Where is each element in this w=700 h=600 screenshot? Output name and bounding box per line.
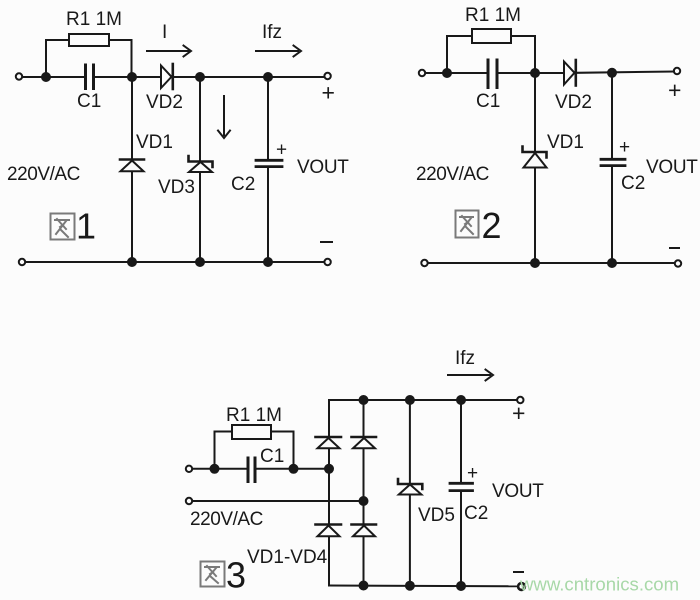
- resistor R1 (fig1): [69, 34, 109, 46]
- wire: fig3 VD5 lower lead: [409, 495, 411, 586]
- svg-text:220V/AC: 220V/AC: [416, 164, 489, 185]
- node: fig1 junction VD3 bottom: [196, 258, 204, 266]
- svg-text:VD2: VD2: [146, 92, 183, 113]
- wire: fig2 C2 lower lead: [611, 167, 613, 264]
- node: fig3 junction R1-right: [290, 465, 298, 473]
- node: fig3 junction C2 top: [457, 396, 465, 404]
- svg-text:www.cntronics.com: www.cntronics.com: [519, 574, 679, 595]
- node: fig1 junction C2 bottom: [264, 258, 272, 266]
- label: fig1 caption number 1: [76, 206, 96, 247]
- svg-text:VD1: VD1: [136, 132, 173, 153]
- node: fig2 junction VD1 bottom: [531, 259, 539, 267]
- wire: fig3 C1 to bridge left midpoint: [257, 468, 330, 470]
- wire: fig2 R1 branch right riser: [511, 36, 535, 73]
- zener diode VD5 (fig3): [398, 479, 422, 495]
- wire: fig3 R1 branch left riser: [215, 432, 233, 469]
- svg-text:+: +: [276, 140, 287, 161]
- label: fig3 220V/AC: [190, 509, 263, 530]
- arrow: fig3 Ifz direction: [448, 370, 493, 381]
- label: fig1 plus sign at output: [322, 80, 335, 106]
- node: fig3 junction VD5 bottom: [406, 582, 414, 590]
- svg-text:C1: C1: [476, 91, 500, 112]
- label: fig1 C2 polarity +: [276, 140, 287, 161]
- terminal: fig3 AC input 1: [186, 466, 192, 472]
- node: fig2 junction R1-left / input: [443, 69, 451, 77]
- label: fig2 C2 polarity +: [619, 137, 630, 158]
- label: fig2 VOUT: [646, 157, 698, 178]
- svg-text:R1 1M: R1 1M: [66, 9, 122, 30]
- svg-text:C2: C2: [231, 174, 255, 195]
- wire: fig1 VD3 lower lead: [199, 172, 201, 262]
- wire: fig1 bottom rail: [25, 261, 324, 263]
- wire: fig2 bottom rail: [428, 262, 675, 264]
- label: fig3 C1: [260, 446, 284, 467]
- label: fig3 VD5: [418, 505, 455, 526]
- diode VD1 upper-left of bridge (fig3): [316, 437, 342, 448]
- label: fig2 plus sign at output: [668, 77, 681, 103]
- capacitor C2 electrolytic (fig3): [450, 483, 473, 490]
- wire: fig2 VD1 upper lead: [534, 73, 536, 152]
- label: fig1 minus sign at output: [321, 241, 332, 243]
- label: fig1 caption glyph 图: [51, 214, 75, 240]
- svg-text:220V/AC: 220V/AC: [7, 164, 80, 185]
- node: fig2 junction C2 bottom: [608, 259, 616, 267]
- wire: fig1 top rail left segment (input to C1): [22, 76, 84, 78]
- node: fig3 junction C1 to bridge left midpoint: [325, 465, 333, 473]
- label: fig2 R1 value: [465, 5, 521, 26]
- wire: fig2 VD1 lower lead: [534, 168, 536, 263]
- svg-text:VOUT: VOUT: [297, 157, 349, 178]
- svg-text:Ifz: Ifz: [455, 348, 475, 369]
- arrow: fig1 current down through VD3: [218, 96, 230, 138]
- wire: fig3 top rail (+ bus): [329, 399, 517, 401]
- svg-text:VOUT: VOUT: [646, 157, 698, 178]
- svg-text:VD5: VD5: [418, 505, 455, 526]
- node: fig2 junction C1/R1/VD1/VD2: [531, 69, 539, 77]
- label: fig2 C1: [476, 91, 500, 112]
- resistor R1 (fig3): [232, 425, 271, 439]
- terminal: fig3 AC input 2: [186, 498, 192, 504]
- wire: fig1 VD1 lower lead: [131, 172, 133, 263]
- terminal: fig2 AC input bottom: [421, 260, 427, 266]
- label: fig1 VD2: [146, 92, 183, 113]
- svg-text:220V/AC: 220V/AC: [190, 509, 263, 530]
- label: fig2 C2: [621, 173, 645, 194]
- svg-text:R1 1M: R1 1M: [226, 405, 282, 426]
- capacitor C1 (fig2): [488, 60, 497, 88]
- wire: fig1 top rail C1 to VD2: [95, 76, 160, 78]
- wire: fig1 R1 branch left riser: [46, 40, 69, 77]
- label: fig1 VD1: [136, 132, 173, 153]
- label: fig2 caption number 2: [482, 205, 502, 246]
- arrow: fig1 current I direction: [147, 46, 191, 57]
- label: fig1 R1 value: [66, 9, 122, 30]
- label: fig3 VD1-VD4: [247, 547, 328, 568]
- svg-text:3: 3: [226, 555, 246, 596]
- svg-text:VD2: VD2: [555, 92, 592, 113]
- label: fig3 current Ifz: [455, 348, 475, 369]
- label: fig1 VOUT: [297, 157, 349, 178]
- resistor R1 (fig2): [472, 29, 511, 43]
- label: fig3 caption number 3: [226, 555, 246, 596]
- wire: fig3 R1 branch right riser: [271, 432, 294, 469]
- svg-text:+: +: [619, 137, 630, 158]
- diode VD2 (fig2): [564, 60, 576, 86]
- wire: fig1 VD1 upper lead: [131, 77, 133, 159]
- svg-text:C2: C2: [621, 173, 645, 194]
- wire: fig3 bridge left column upper lead: [328, 400, 330, 437]
- diode VD3 lower-left of bridge (fig3): [316, 525, 342, 537]
- capacitor C1 (fig3): [248, 458, 255, 482]
- svg-text:VOUT: VOUT: [492, 481, 544, 502]
- svg-text:VD1: VD1: [547, 132, 584, 153]
- zener diode VD3 (fig1): [189, 156, 213, 172]
- diode VD2 upper-right of bridge (fig3): [352, 437, 377, 448]
- diode VD4 lower-right of bridge (fig3): [352, 525, 377, 537]
- node: fig3 junction AC2 to bridge right midpoint: [360, 497, 368, 505]
- label: fig3 minus sign at output: [514, 571, 523, 573]
- terminal: fig1 AC input top: [16, 73, 22, 79]
- node: fig3 junction bridge right column bottom: [360, 582, 368, 590]
- node: fig3 junction R1-left: [211, 465, 219, 473]
- wire: fig3 bridge right column lower lead: [363, 537, 365, 586]
- node: fig1 junction VD3 top: [196, 73, 204, 81]
- node: fig1 junction C1/R1/VD1/VD2: [128, 73, 136, 81]
- label: fig2 caption glyph 图: [456, 211, 479, 238]
- svg-text:Ifz: Ifz: [262, 22, 282, 43]
- diode VD1 (fig1): [120, 160, 144, 172]
- wire: fig3 bottom rail (- bus): [329, 585, 518, 588]
- wire: fig2 R1 branch left riser: [447, 36, 472, 73]
- node: fig2 junction C2 top: [608, 69, 616, 77]
- label: fig3 R1 value: [226, 405, 282, 426]
- label: fig2 VD1: [547, 132, 584, 153]
- capacitor C1 (fig1): [86, 65, 94, 89]
- terminal: fig3 output -: [518, 583, 525, 590]
- terminal: fig1 AC input bottom: [19, 259, 25, 265]
- terminal: fig3 output +: [517, 397, 523, 403]
- capacitor C2 electrolytic (fig1): [256, 160, 282, 166]
- label: fig1 VD3: [158, 177, 195, 198]
- wire: fig3 AC2 lead to bridge right midpoint: [192, 500, 363, 502]
- svg-text:C1: C1: [77, 91, 101, 112]
- wire: fig1 C2 upper lead: [267, 77, 269, 160]
- svg-text:VD1-VD4: VD1-VD4: [247, 547, 328, 568]
- node: fig1 junction R1-left / input: [42, 73, 50, 81]
- label: fig3 C2 polarity +: [467, 463, 478, 484]
- terminal: fig2 output +: [674, 68, 680, 74]
- label: fig2 VD2: [555, 92, 592, 113]
- wire: fig3 C2 upper lead: [460, 400, 462, 483]
- svg-text:C2: C2: [464, 503, 488, 524]
- diode VD2 (fig1): [161, 64, 173, 89]
- svg-text:C1: C1: [260, 446, 284, 467]
- node: fig3 junction bridge right column top: [360, 396, 368, 404]
- label: fig1 current Ifz: [262, 22, 282, 43]
- svg-text:+: +: [322, 80, 335, 106]
- wire: fig3 VD5 upper lead: [409, 400, 411, 484]
- wire: fig3 bridge right column middle lead: [363, 449, 365, 525]
- arrow: fig1 Ifz direction: [256, 46, 301, 57]
- capacitor C2 electrolytic (fig2): [601, 159, 625, 165]
- terminal: fig2 output -: [675, 260, 681, 266]
- wire: fig2 top rail left segment (input to C1): [425, 72, 486, 74]
- terminal: fig1 output -: [324, 259, 330, 265]
- svg-text:R1 1M: R1 1M: [465, 5, 521, 26]
- svg-text:I: I: [162, 22, 167, 43]
- terminal: fig1 output +: [324, 73, 330, 79]
- wire: fig3 AC1 lead to C1: [192, 468, 246, 470]
- label: fig1 C1: [77, 91, 101, 112]
- label: fig3 VOUT: [492, 481, 544, 502]
- label: fig2 220V/AC: [416, 164, 489, 185]
- watermark: www.cntronics.com: [519, 574, 679, 595]
- svg-text:2: 2: [482, 205, 502, 246]
- svg-text:1: 1: [76, 206, 96, 247]
- wire: fig1 top rail VD2 to output terminal: [174, 76, 325, 78]
- node: fig3 junction VD5 top: [406, 396, 414, 404]
- wire: fig2 C2 upper lead: [611, 73, 613, 159]
- label: fig1 220V/AC: [7, 164, 80, 185]
- node: fig1 junction C2 top: [264, 73, 272, 81]
- zener diode VD1 (fig2): [523, 147, 547, 168]
- wire: fig3 bridge left column middle lead: [328, 449, 330, 525]
- label: fig1 C2: [231, 174, 255, 195]
- svg-text:+: +: [512, 400, 525, 426]
- node: fig3 junction C2 bottom: [457, 582, 465, 590]
- wire: fig3 bridge right column upper lead: [363, 400, 365, 437]
- svg-text:VD3: VD3: [158, 177, 195, 198]
- label: fig3 caption glyph 图: [201, 562, 225, 587]
- wire: fig3 bridge left column lower lead: [328, 537, 330, 586]
- svg-text:+: +: [668, 77, 681, 103]
- label: fig2 minus sign at output: [670, 247, 679, 249]
- wire: fig3 C2 lower lead: [460, 492, 462, 587]
- wire: fig1 R1 branch right riser: [109, 40, 132, 77]
- wire: fig1 C2 lower lead: [267, 168, 269, 263]
- label: fig3 C2: [464, 503, 488, 524]
- svg-text:+: +: [467, 463, 478, 484]
- wire: fig2 top rail C1 to VD2: [499, 72, 563, 74]
- node: fig1 junction VD1 bottom: [128, 258, 136, 266]
- label: fig3 plus sign at output: [512, 400, 525, 426]
- wire: fig2 top rail VD2 to output terminal: [577, 72, 674, 73]
- label: fig1 current I: [162, 22, 167, 43]
- terminal: fig2 AC input top: [419, 70, 425, 76]
- wire: fig1 VD3 upper lead: [199, 77, 201, 161]
